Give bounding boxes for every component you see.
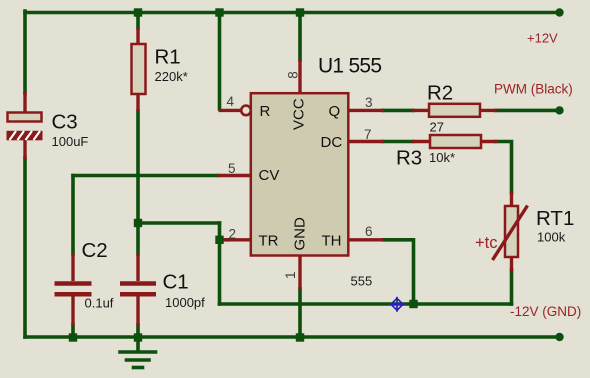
- junction dot GND bus C1: [134, 333, 142, 341]
- wire C2 bottom to GND bus: [71, 325, 75, 337]
- svg-text:RT1: RT1: [536, 207, 574, 230]
- wire Q pin3 to R2: [383, 109, 413, 113]
- wire TR junction to pin2 stub: [220, 238, 229, 242]
- svg-text:+12V: +12V: [527, 31, 558, 46]
- wire C1 top: [136, 223, 140, 254]
- svg-text:100k: 100k: [537, 230, 566, 245]
- svg-text:2: 2: [229, 227, 237, 242]
- wire C3 bottom to GND bus: [23, 158, 27, 337]
- svg-text:U1 555: U1 555: [318, 55, 382, 78]
- svg-text:220k*: 220k*: [155, 69, 188, 84]
- wire DC pin7 to R3: [383, 140, 413, 144]
- svg-text:1000pf: 1000pf: [165, 295, 205, 310]
- junction dot TH net: [409, 300, 417, 308]
- svg-text:C3: C3: [52, 111, 78, 134]
- wire TR column vertical: [218, 223, 222, 240]
- svg-text:CV: CV: [259, 167, 280, 184]
- pin 6 TH stub: [349, 224, 384, 240]
- capacitor C3: [7, 92, 89, 159]
- pin 8 VCC stub: [285, 59, 300, 92]
- IC pin labels: [259, 98, 343, 250]
- terminal dot -12V: [555, 333, 563, 341]
- wire C1 bottom to GND bus: [136, 325, 140, 337]
- capacitor C1: [120, 254, 205, 326]
- wire R2 to PWM terminal: [496, 109, 560, 113]
- svg-text:6: 6: [365, 224, 373, 239]
- svg-text:+tc: +tc: [475, 234, 497, 252]
- svg-text:4: 4: [227, 94, 235, 109]
- wire C2 top vertical: [71, 176, 75, 255]
- junction dot top bus R1: [134, 8, 142, 16]
- pin 7 DC stub: [349, 127, 384, 142]
- wire TR junction down to bottom net: [218, 240, 222, 304]
- terminal dot PWM: [555, 106, 563, 114]
- pin 4 R stub with inversion circle: [219, 94, 251, 115]
- wire CV horizontal: [73, 174, 218, 178]
- wire TR-TH-RT1 horizontal net: [220, 302, 512, 306]
- junction dot GND bus pin1: [296, 333, 304, 341]
- svg-text:0.1uf: 0.1uf: [85, 296, 114, 311]
- junction dot node A: [134, 219, 142, 227]
- resistor R2: [412, 82, 497, 135]
- wire pin4 vertical from +12V: [218, 11, 222, 109]
- svg-text:7: 7: [364, 127, 372, 142]
- wire R3 to RT1 elbow: [496, 142, 512, 194]
- svg-text:R1: R1: [155, 46, 181, 69]
- junction dot TR: [215, 236, 223, 244]
- svg-text:5: 5: [228, 161, 236, 176]
- svg-text:Q: Q: [329, 103, 341, 120]
- svg-text:VCC: VCC: [291, 98, 308, 130]
- resistor R3: [396, 135, 497, 170]
- wire pin1 to GND bus: [298, 289, 302, 337]
- origin marker: [390, 297, 405, 312]
- svg-text:C2: C2: [82, 239, 108, 262]
- svg-text:TH: TH: [322, 233, 342, 250]
- wire R1 top branch: [136, 11, 140, 28]
- thermistor RT1: [475, 192, 574, 271]
- ground: [120, 337, 156, 368]
- svg-text:3: 3: [365, 95, 373, 110]
- wire left vertical from +12V to C3: [23, 11, 27, 93]
- junction dot GND bus C2: [69, 333, 77, 341]
- pin 5 CV stub: [217, 161, 252, 176]
- wire TH pin6 elbow: [383, 240, 414, 304]
- svg-text:GND: GND: [292, 217, 309, 251]
- svg-text:C1: C1: [163, 271, 189, 294]
- svg-text:8: 8: [285, 71, 300, 79]
- svg-text:27: 27: [430, 120, 444, 135]
- wire R1 bottom to node A: [136, 111, 140, 223]
- svg-text:DC: DC: [321, 134, 343, 151]
- junction dot top bus pin8: [296, 8, 304, 16]
- terminal dot +12V: [555, 8, 563, 16]
- wire RT1 bottom elbow to net: [510, 270, 514, 304]
- capacitor C2: [55, 239, 114, 326]
- pin 1 GND stub: [283, 256, 300, 290]
- svg-text:-12V (GND): -12V (GND): [510, 304, 581, 319]
- svg-text:10k*: 10k*: [429, 150, 455, 165]
- resistor R1: [132, 27, 188, 112]
- svg-text:R2: R2: [427, 82, 453, 105]
- svg-text:1: 1: [283, 271, 298, 279]
- svg-text:R: R: [260, 103, 271, 120]
- svg-text:R3: R3: [396, 147, 422, 170]
- svg-text:TR: TR: [259, 233, 279, 250]
- wire GND bottom bus: [25, 335, 560, 339]
- wire +12V top bus: [25, 11, 560, 15]
- svg-text:100uF: 100uF: [52, 134, 89, 149]
- pin 3 Q stub: [349, 95, 384, 110]
- svg-text:PWM (Black): PWM (Black): [494, 82, 573, 97]
- pin 2 TR stub: [224, 227, 253, 242]
- junction dot top bus pin4: [215, 8, 223, 16]
- IC U1 555 (555 timer): [251, 55, 382, 289]
- wire pin8 vertical from +12V: [298, 11, 302, 60]
- wire node A horizontal to TR column: [138, 221, 220, 225]
- svg-text:555: 555: [351, 274, 373, 289]
